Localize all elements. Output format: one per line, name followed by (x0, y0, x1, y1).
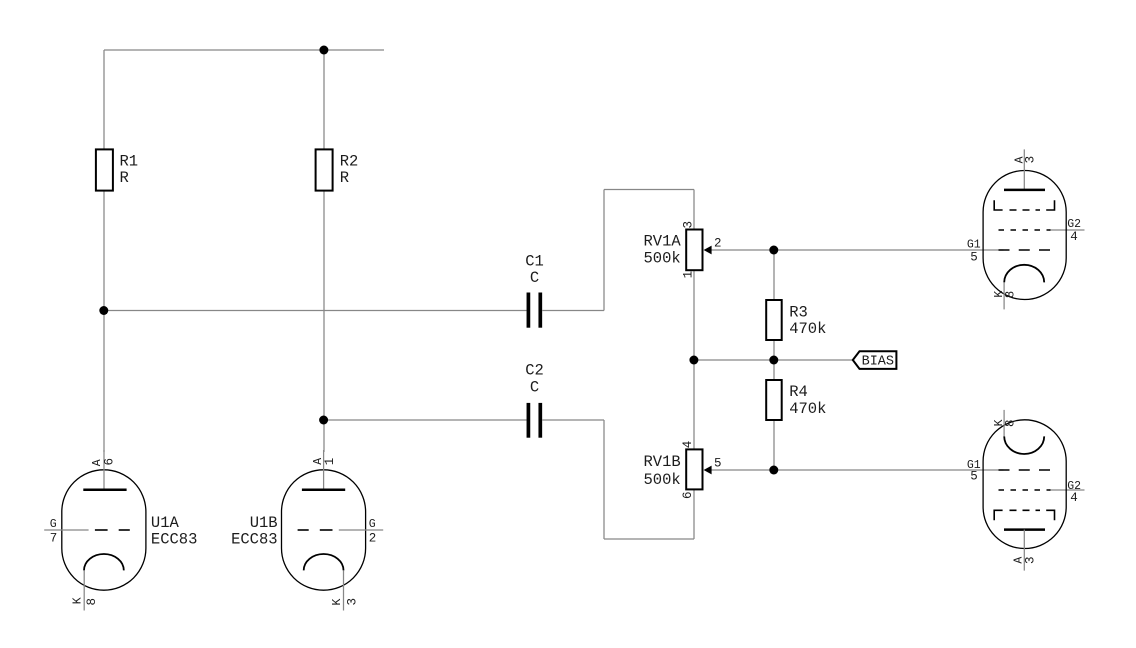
svg-text:8: 8 (85, 598, 99, 606)
wire V2 G2 stub (1049, 489, 1085, 491)
svg-text:1: 1 (682, 271, 696, 279)
svg-text:5: 5 (714, 456, 722, 470)
V1 cathode pin 8 (1004, 265, 1044, 283)
V1 control grid pin 5 (999, 249, 1051, 251)
svg-text:C: C (530, 269, 539, 287)
potentiometer RV1A (643, 221, 721, 278)
V2 control grid pin 5 (999, 469, 1051, 471)
U1B anode pin 1 (323, 450, 325, 490)
wire RV1A pin1 to RV1B pin4 (693, 270, 695, 449)
capacitor C2 (525, 362, 544, 438)
V2 anode pin 3 (1004, 528, 1045, 531)
svg-text:8: 8 (1004, 291, 1018, 299)
wire R1 branch lower (103, 190, 105, 452)
wire R2 branch upper (323, 50, 325, 150)
svg-text:5: 5 (970, 470, 978, 484)
triode U1A (44, 450, 197, 611)
resistor R4 (766, 380, 826, 420)
svg-text:8: 8 (1004, 419, 1018, 427)
svg-text:ECC83: ECC83 (151, 530, 198, 548)
svg-text:3: 3 (682, 221, 696, 229)
BIAS net flag (853, 351, 897, 369)
svg-text:3: 3 (1024, 156, 1038, 164)
svg-text:R4: R4 (789, 383, 808, 401)
V2 suppressor grid (994, 510, 1002, 520)
node junction wiper bottom (769, 466, 778, 475)
wire V1 G2 stub (1049, 229, 1085, 231)
svg-text:4: 4 (1070, 491, 1078, 505)
svg-text:3: 3 (346, 598, 360, 606)
node junction mid left (689, 356, 698, 365)
svg-text:5: 5 (970, 250, 978, 264)
U1A grid pin 7 (44, 529, 88, 531)
wire R3 top link (773, 250, 775, 300)
svg-text:R: R (120, 169, 129, 187)
svg-text:C2: C2 (525, 362, 544, 380)
svg-text:6: 6 (681, 491, 695, 499)
svg-text:R3: R3 (789, 303, 808, 321)
V1 screen grid pin 4 (999, 229, 1051, 231)
wire C2 run left (324, 419, 527, 421)
V1 suppressor grid (994, 200, 1002, 210)
wire top rail (104, 49, 384, 51)
wire RV1B wiper to V2 G1 (711, 469, 1004, 471)
svg-text:7: 7 (50, 532, 58, 546)
svg-text:500k: 500k (643, 249, 680, 267)
wire R1 branch upper (103, 50, 105, 150)
node junction U1A anode (99, 306, 108, 315)
svg-text:BIAS: BIAS (862, 354, 894, 369)
svg-text:470k: 470k (789, 320, 826, 338)
svg-text:RV1B: RV1B (643, 453, 680, 471)
node junction top rail (319, 46, 328, 55)
svg-text:4: 4 (681, 441, 695, 449)
wire C2 riser (603, 420, 605, 539)
V1 anode pin 3 (1023, 149, 1025, 190)
wire C1 run right (542, 310, 604, 312)
svg-text:U1B: U1B (250, 514, 278, 532)
U1A cathode pin 8 (84, 554, 124, 570)
node junction U1B anode (319, 416, 328, 425)
wire RV1B pin6 down (693, 489, 695, 539)
svg-text:2: 2 (369, 532, 377, 546)
svg-text:K: K (331, 599, 344, 606)
resistor R3 (766, 300, 826, 340)
node junction BIAS (769, 356, 778, 365)
U1A anode pin 6 (103, 450, 105, 490)
wire RV1A pin3 (693, 190, 695, 230)
svg-text:K: K (71, 597, 84, 604)
wire to RV1A top (604, 189, 694, 191)
svg-text:RV1A: RV1A (643, 233, 681, 251)
pentode V1 top right (967, 149, 1081, 309)
svg-text:U1A: U1A (151, 514, 180, 532)
wire C1 riser (603, 190, 605, 311)
pentode V2 bottom right (967, 410, 1081, 571)
wire C2 run right (542, 419, 604, 421)
wire RV1B bottom run (604, 538, 694, 540)
V2 screen grid pin 4 (999, 489, 1051, 491)
svg-text:ECC83: ECC83 (231, 530, 278, 548)
wire R3-R4 link (773, 340, 775, 380)
U1B cathode pin 3 (304, 554, 344, 570)
svg-text:500k: 500k (643, 471, 680, 489)
resistor R1 (96, 149, 138, 190)
svg-text:R: R (340, 169, 349, 187)
svg-text:2: 2 (714, 236, 722, 250)
potentiometer RV1B (643, 441, 721, 499)
wire R4 bottom link (773, 420, 775, 470)
svg-text:3: 3 (1023, 556, 1037, 564)
svg-text:R2: R2 (340, 153, 359, 171)
wire mid to BIAS (694, 359, 853, 361)
triode U1B (231, 450, 383, 611)
wire C1 run left (104, 310, 527, 312)
node junction wiper top (769, 246, 778, 255)
svg-text:C: C (530, 379, 539, 397)
U1B grid pin 2 (339, 529, 383, 531)
svg-text:R1: R1 (120, 153, 139, 171)
svg-text:G: G (50, 518, 57, 531)
svg-text:1: 1 (323, 458, 337, 466)
wire R2 branch lower (323, 190, 325, 452)
V2 cathode pin 8 (1003, 410, 1005, 436)
svg-text:C1: C1 (525, 252, 544, 270)
svg-text:6: 6 (103, 458, 117, 466)
svg-text:470k: 470k (789, 400, 826, 418)
svg-text:4: 4 (1070, 230, 1078, 244)
resistor R2 (316, 149, 359, 190)
svg-text:G: G (369, 518, 376, 531)
wire RV1A wiper to V1 G1 (711, 249, 1004, 251)
capacitor C1 (525, 252, 544, 327)
